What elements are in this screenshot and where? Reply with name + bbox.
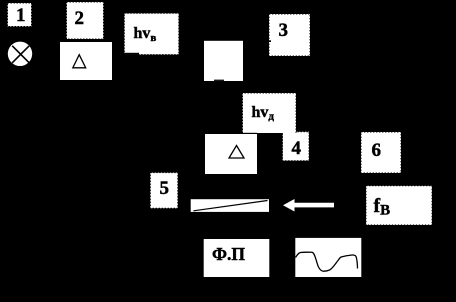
node hv_B label box: [124, 13, 179, 54]
svg-text:1: 1: [16, 5, 26, 26]
svg-text:4: 4: [292, 138, 302, 159]
oscillogram block (waveform): [295, 238, 361, 277]
wire stub under modulator box: [214, 80, 224, 82]
svg-text:2: 2: [75, 8, 85, 29]
block 3 label box: [269, 14, 310, 56]
svg-text:Ф.П: Ф.П: [212, 244, 245, 264]
svg-text:6: 6: [372, 140, 382, 161]
node f_B label box: [366, 186, 432, 225]
ramp wedge block: [191, 199, 269, 212]
block 5 label box: [150, 173, 178, 209]
svg-text:3: 3: [279, 20, 289, 41]
block 1 label box: [8, 3, 32, 27]
block Ф.П (photodetector): [204, 239, 270, 277]
amplifier A2 (triangle box): [205, 134, 257, 174]
wire segment between hv_D box and amplifier A2: [242, 133, 257, 134]
modulator block (empty box): [204, 41, 243, 81]
wire stub under hv_B box: [124, 53, 139, 55]
arrow pointing left: [283, 199, 334, 212]
block 4 label box: [283, 132, 310, 161]
node hv_D label box: [243, 93, 297, 133]
wire stub into block 3: [269, 40, 272, 42]
svg-text:5: 5: [160, 178, 170, 199]
amplifier A1 (triangle box): [60, 42, 112, 80]
block 2 label box: [67, 2, 104, 39]
lamp (light source symbol): [8, 42, 32, 66]
block 6 label box: [361, 132, 401, 173]
